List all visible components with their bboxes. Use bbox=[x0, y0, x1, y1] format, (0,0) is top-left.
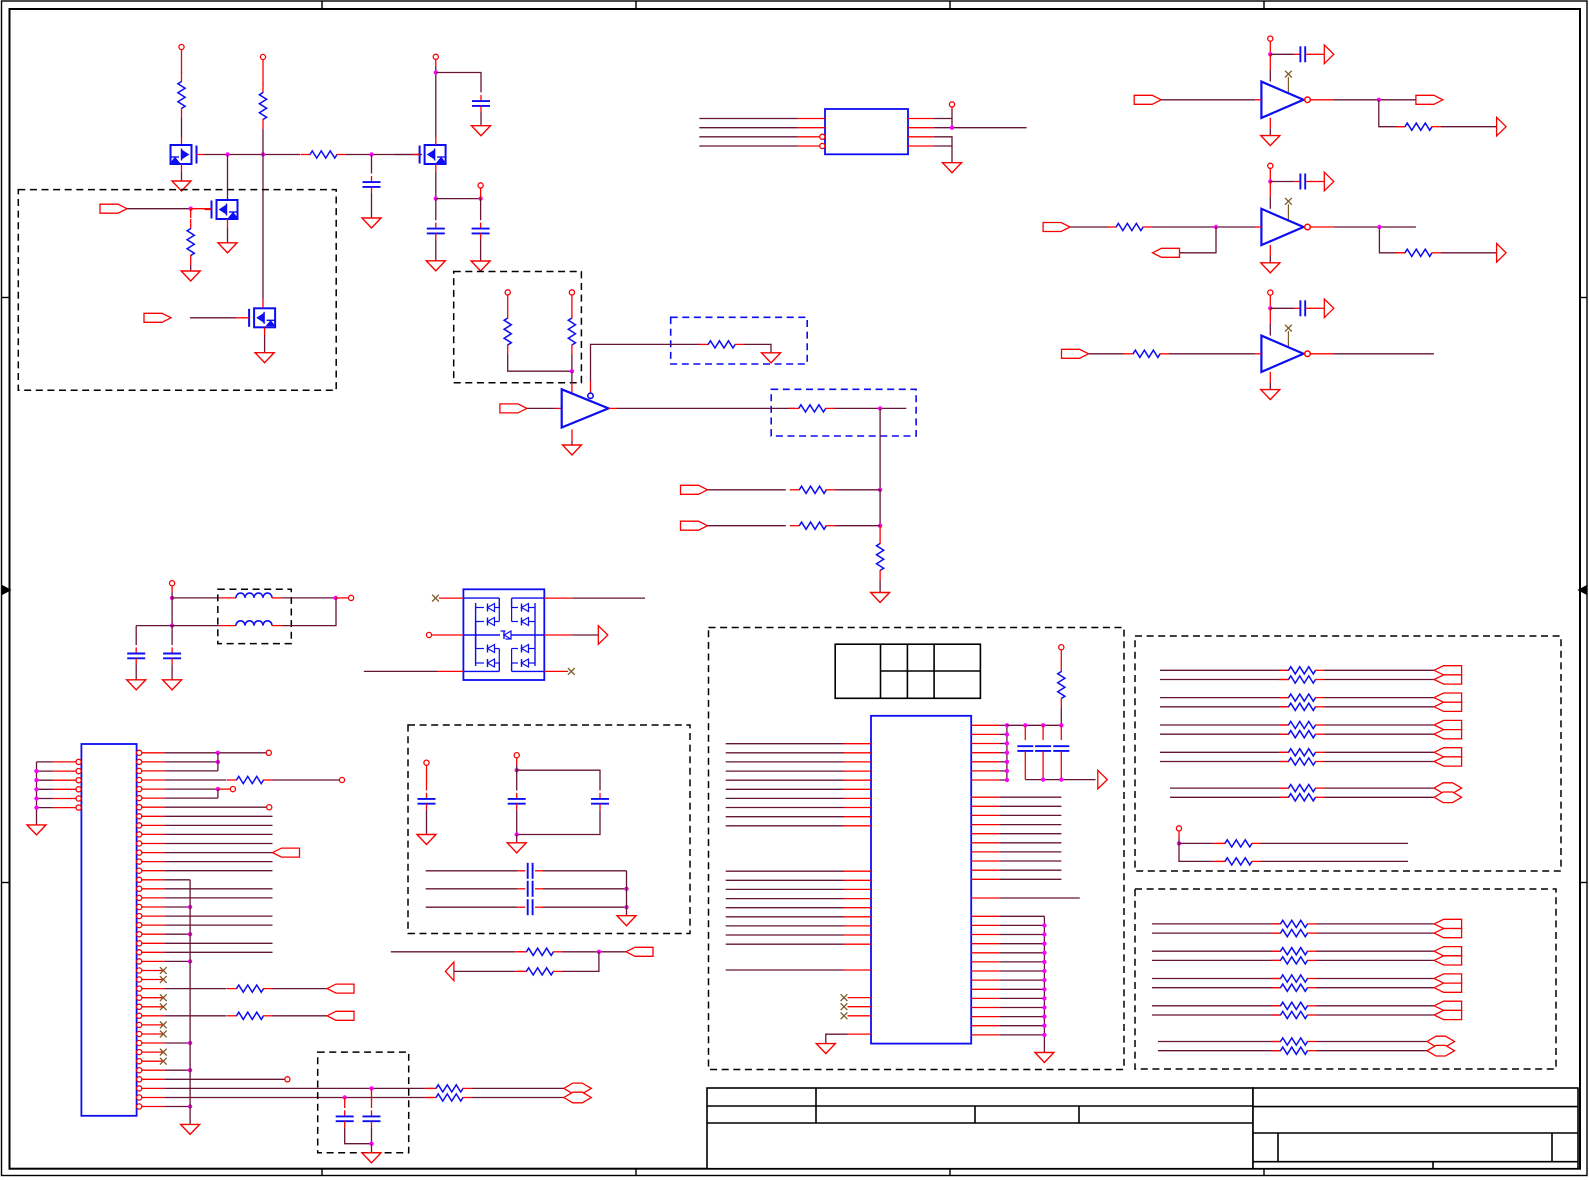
resistor R19 bbox=[1060, 662, 1062, 672]
wire pairA bbox=[391, 951, 516, 953]
wire series cap row1 right bbox=[543, 870, 627, 872]
wire D1 pin2 stub bbox=[432, 634, 464, 636]
wire J1 right 20 stub bbox=[142, 924, 165, 926]
wire U3 gnd pin bbox=[826, 1033, 848, 1035]
wire U3 tr pin1 bbox=[1000, 724, 1007, 726]
pin P14 bbox=[1176, 826, 1181, 831]
wire pairB stub bbox=[515, 970, 525, 972]
wire J1 right net 6 bbox=[164, 797, 218, 799]
wire J1 right net 1 bbox=[164, 752, 266, 754]
node J1 left bus junction y780 bbox=[34, 778, 38, 782]
wire U3 tr pin1 stub bbox=[971, 724, 999, 726]
wire arrA p4b bbox=[1160, 761, 1289, 763]
wire J1 left 6 bbox=[37, 807, 54, 809]
node Q4 drain junction bbox=[434, 70, 438, 74]
wire U3 tr pin3 bbox=[1000, 743, 1007, 745]
wire J1 right 40 stub bbox=[142, 1106, 165, 1108]
node rail junction 2 bbox=[1041, 723, 1045, 727]
ground below C3 bbox=[472, 126, 491, 136]
wire U3 mr pin4 bbox=[1000, 824, 1062, 826]
wire Q2 source to gnd bbox=[227, 228, 229, 243]
pin net r1 end bbox=[266, 750, 271, 755]
wire U3 br pin4 bbox=[1000, 943, 1045, 945]
wire U3 lg1 pin1 stub bbox=[844, 743, 871, 745]
wire J1 r38 long net bbox=[164, 1087, 426, 1089]
wire J1 left 6 stub bbox=[53, 807, 76, 809]
border zone ticks bbox=[321, 1, 323, 9]
node U3 tr bus junction y780 bbox=[1005, 778, 1009, 782]
tag J1 r12 bbox=[273, 848, 300, 857]
node U3 br bus junction y934 bbox=[1042, 932, 1046, 936]
capacitor C8 bbox=[426, 793, 428, 799]
wire R4 to gnd bbox=[190, 265, 192, 271]
wire U3 lg2 pin3 bbox=[726, 888, 844, 890]
wire J1 right 3 stub bbox=[142, 770, 165, 772]
wire P2 to R2 bbox=[262, 60, 264, 84]
wire R8 to junction bbox=[835, 407, 907, 409]
wire C6 drop bbox=[135, 626, 137, 646]
input tag op1 bbox=[1134, 95, 1161, 104]
ground U1 bbox=[943, 163, 962, 173]
wire arrB p4a out bbox=[1317, 1005, 1435, 1007]
wire series cap row3 right bbox=[543, 906, 627, 908]
wire J1 right net 33 bbox=[164, 1042, 190, 1044]
wire J1 right 35 stub bbox=[142, 1060, 165, 1062]
pin J1 right 14 bbox=[137, 868, 142, 873]
pin op2 VCC bbox=[1268, 163, 1273, 168]
wire U3 lg2 pin5 stub bbox=[844, 907, 871, 909]
wire L out stub bbox=[336, 597, 349, 599]
no-connect X J1 r29 bbox=[160, 1003, 167, 1010]
node J1 left bus junction y771 bbox=[34, 769, 38, 773]
capacitor C15 bbox=[371, 1110, 373, 1116]
node U3 br bus junction y998 bbox=[1042, 996, 1046, 1000]
wire U3 br pin10 bbox=[1000, 997, 1045, 999]
wire U3 mr pin7 stub bbox=[971, 851, 999, 853]
node U3 br bus junction y961 bbox=[1042, 960, 1046, 964]
capacitor C4 bbox=[435, 223, 437, 229]
resistor R3 bbox=[301, 154, 311, 156]
transistor Q1 bbox=[171, 145, 192, 164]
resistor op3 in bbox=[1124, 353, 1134, 355]
node U3 br bus junction y989 bbox=[1042, 987, 1046, 991]
wire op2 cap to arrow bbox=[1310, 181, 1325, 183]
wire U1 left pin 1 stub bbox=[798, 118, 825, 120]
wire R18 out bbox=[472, 1097, 564, 1099]
wire D1 pin6 net bbox=[572, 597, 645, 599]
pin J1 right 40 bbox=[137, 1104, 142, 1109]
wire P11 down bbox=[426, 765, 428, 790]
wire arrA p5a out bbox=[1325, 787, 1435, 789]
wire U2 in bbox=[527, 407, 555, 409]
resistor R26 bbox=[1279, 751, 1289, 753]
wire op3 cap to arrow bbox=[1310, 307, 1325, 309]
wire P13 down bbox=[1060, 650, 1062, 663]
node bus junction r24 bbox=[188, 959, 192, 963]
no-connect X J1 r35 bbox=[160, 1058, 167, 1065]
wire junction E to C5 bbox=[480, 199, 482, 221]
node U3 br bus junction y1016 bbox=[1042, 1014, 1046, 1018]
output tag op1 bbox=[1416, 95, 1443, 104]
wire Q3 gate stub bbox=[236, 317, 244, 319]
wire EN2 to Q3 gate bbox=[190, 317, 236, 319]
wire cap2 drop bbox=[1060, 725, 1062, 740]
wire pairA stub bbox=[515, 951, 525, 953]
wire U3 br pin1 stub bbox=[971, 915, 999, 917]
pin J1 left 5 bbox=[76, 796, 81, 801]
wire R1 to Q1 drain bbox=[181, 118, 183, 137]
wire U3 tr pin6 bbox=[1000, 770, 1007, 772]
node op2 in junction bbox=[1214, 225, 1218, 229]
wire J1 right 8 stub bbox=[142, 815, 165, 817]
resistor R11 bbox=[879, 534, 881, 544]
wire cap0 drop bbox=[1024, 725, 1026, 740]
wire L1 out bbox=[282, 597, 336, 599]
ground below C4 bbox=[426, 261, 445, 271]
wire U3 br pin4 stub bbox=[971, 943, 999, 945]
wire C14 gnd link bbox=[345, 1127, 372, 1143]
wire J1 right 25 stub bbox=[142, 970, 165, 972]
wire U3 br pin12 bbox=[1000, 1016, 1045, 1018]
net tags arrA pair4 bbox=[1434, 748, 1462, 757]
wire U3 lg1 pin9 stub bbox=[844, 816, 871, 818]
wire U3 mr pin3 stub bbox=[971, 814, 999, 816]
pin J1 left 4 bbox=[76, 787, 81, 792]
node pairA junction bbox=[597, 950, 601, 954]
resistor R25 bbox=[1279, 733, 1289, 735]
resistor R16 bbox=[517, 970, 527, 972]
resistor R8 bbox=[789, 407, 799, 409]
wire arrB p2a out bbox=[1317, 950, 1435, 952]
wire U3 br pin11 bbox=[1000, 1007, 1045, 1009]
wire C7 to gnd bbox=[171, 664, 173, 679]
wire pairA out bbox=[562, 951, 626, 953]
wire junction to C3 bbox=[436, 73, 481, 93]
transistor Q3 bbox=[254, 308, 275, 327]
resistor op1 fb bbox=[1396, 126, 1406, 128]
node gate junction B bbox=[261, 152, 265, 156]
ground R11 bbox=[871, 593, 890, 603]
wire arrA p2b bbox=[1160, 706, 1289, 708]
wire U3 tr pin7 stub bbox=[971, 779, 999, 781]
wire U3 lg2 pin8 stub bbox=[844, 934, 871, 936]
wire R11 to gnd bbox=[879, 580, 881, 593]
wire net down bbox=[879, 408, 881, 489]
wire U3 lg2 pin9 stub bbox=[844, 943, 871, 945]
capacitor C2 bbox=[371, 176, 373, 182]
no-connect X J1 r26 bbox=[160, 976, 167, 983]
pin J1 right 10 bbox=[137, 832, 142, 837]
wire arrB p3a bbox=[1152, 978, 1281, 980]
node L out junction bbox=[333, 596, 337, 600]
wire J1 right net 23 bbox=[164, 951, 272, 953]
wire cap2 down bbox=[1060, 751, 1062, 780]
wire J1 right bus bbox=[189, 880, 191, 1125]
wire Q2 gate stub bbox=[191, 208, 212, 210]
wire R6 down bbox=[571, 355, 573, 372]
wire J1 left 3 stub bbox=[53, 779, 76, 781]
wire pullup to U2 vcc stub bbox=[571, 383, 573, 394]
wire U3 lg2 pin5 bbox=[726, 907, 844, 909]
stub op3 nc bbox=[1287, 331, 1289, 347]
wire U3 lg1 pin6 bbox=[726, 788, 844, 790]
wire J1 right 30 stub bbox=[142, 1015, 165, 1017]
pin J1 right 12 bbox=[137, 850, 142, 855]
wire op1 out bbox=[1334, 99, 1416, 101]
wire C9 gnd stem bbox=[516, 835, 518, 843]
resistor R4 bbox=[190, 219, 192, 229]
wire J1 left 2 stub bbox=[53, 770, 76, 772]
wire cap0 down bbox=[1024, 751, 1026, 780]
pin J1 right 5 bbox=[137, 787, 142, 792]
capacitor C9 bbox=[516, 793, 518, 799]
wire J1 right net 2 bbox=[164, 761, 218, 763]
dashed box output filter bbox=[318, 1052, 409, 1153]
wire U1 right pin 2 stub bbox=[908, 127, 934, 129]
wire C13 drop bbox=[344, 1098, 346, 1109]
resistor R30 bbox=[1271, 923, 1281, 925]
pin P1 VCC bbox=[179, 44, 184, 49]
wire junction D to C4 bbox=[435, 199, 437, 221]
pin J1 right 19 bbox=[137, 914, 142, 919]
wire U3 mr pin2 stub bbox=[971, 805, 999, 807]
node bus junction r18 bbox=[188, 905, 192, 909]
node gate junction A bbox=[225, 152, 229, 156]
wire U3 lg1 pin6 stub bbox=[844, 788, 871, 790]
wire arrA p4a out bbox=[1325, 751, 1435, 753]
wire U3 lg1 pin2 stub bbox=[844, 752, 871, 754]
net tags arrB pair2 bbox=[1434, 947, 1462, 956]
pin J1 right 23 bbox=[137, 950, 142, 955]
op-amp U3 triangle bbox=[1261, 209, 1303, 245]
wire U1 pin7 link bbox=[934, 137, 952, 146]
wire U3 mr pin4 stub bbox=[971, 824, 999, 826]
wire U3 tr pin6 stub bbox=[971, 770, 999, 772]
node J1 left bus junction y807 bbox=[34, 805, 38, 809]
wire op2 fb stub bbox=[1396, 252, 1405, 254]
wire U3 mr pin9 stub bbox=[971, 869, 999, 871]
resistor R29 bbox=[1279, 796, 1289, 798]
wire P14 row1 bbox=[1179, 838, 1213, 843]
no-connect X D1 pin1 bbox=[432, 595, 439, 602]
wire U3 tr pin2 bbox=[1000, 733, 1007, 735]
input tag EN2 bbox=[144, 313, 171, 322]
arrow D1 out bbox=[598, 626, 608, 645]
wire series cap row1 left bbox=[426, 870, 518, 872]
ground below C2 bbox=[362, 218, 381, 228]
resistor R15 bbox=[517, 951, 527, 953]
resistor R5 bbox=[507, 309, 509, 319]
wire U3 tr pin7 bbox=[1000, 779, 1007, 781]
wire C2 to gnd bbox=[371, 193, 373, 218]
stub op1 nc bbox=[1287, 77, 1289, 93]
wire C9 loop top bbox=[517, 765, 600, 791]
power arrow op2 bbox=[1324, 172, 1334, 191]
wire arrB p2a bbox=[1152, 950, 1281, 952]
wire Q4 source to junction D bbox=[435, 172, 437, 199]
wire arrA p2a out bbox=[1325, 697, 1435, 699]
inductor L2 bbox=[219, 625, 236, 627]
wire U3 br pin8 bbox=[1000, 979, 1045, 981]
wire J1 r12 to tag bbox=[164, 852, 272, 854]
capacitor C14 bbox=[344, 1110, 346, 1116]
wire P1 to R1 bbox=[181, 50, 183, 73]
pin J1 right 29 bbox=[137, 1004, 142, 1009]
wire U3 br pin3 stub bbox=[971, 934, 999, 936]
wire arrB p3b bbox=[1152, 987, 1281, 989]
wire op1 vcc down bbox=[1269, 54, 1271, 69]
wire U3 lg1 pin10 bbox=[726, 825, 844, 827]
wire J1 right 28 stub bbox=[142, 997, 165, 999]
ground U3 left bbox=[816, 1044, 835, 1054]
node J1 r2 junction bbox=[216, 760, 220, 764]
dashed box pullups bbox=[454, 272, 582, 383]
pin J1 right 28 bbox=[137, 995, 142, 1000]
wire U3 br pin6 bbox=[1000, 961, 1045, 963]
resistor R14 bbox=[227, 1015, 237, 1017]
wire op2 in a bbox=[1070, 226, 1107, 228]
node U3 br bus junction y1025 bbox=[1042, 1023, 1046, 1027]
wire arrA p1b bbox=[1160, 679, 1289, 681]
wire Q1 drain stub bbox=[181, 137, 183, 145]
wire J1 right 6 stub bbox=[142, 797, 165, 799]
wire J1 right 23 stub bbox=[142, 951, 165, 953]
ground C9 bbox=[507, 843, 526, 853]
wire D1 pin1 stub bbox=[439, 597, 463, 599]
resistor R30 bbox=[1216, 842, 1226, 844]
wire J1 right 11 stub bbox=[142, 843, 165, 845]
wire U3 lg2 pin2 stub bbox=[844, 879, 871, 881]
pin J1 right 33 bbox=[137, 1040, 142, 1045]
wire J1 right 9 stub bbox=[142, 824, 165, 826]
wire P6 down bbox=[507, 295, 509, 310]
wire Q4 source stub bbox=[435, 164, 437, 172]
dashed box main IC bbox=[709, 628, 1125, 1070]
resistor R9 bbox=[790, 489, 800, 491]
wire U2 en up bbox=[591, 344, 701, 381]
node op2 out junction bbox=[1377, 225, 1381, 229]
wire J1 right 33 stub bbox=[142, 1042, 165, 1044]
wire U1 pin5 stub bbox=[951, 107, 953, 110]
dashed box option R8 blue bbox=[771, 389, 916, 436]
wire U3 tr bus bbox=[1006, 725, 1008, 780]
wire series cap row3 left bbox=[426, 906, 518, 908]
node filter gnd junction bbox=[369, 1142, 373, 1146]
pin J1 right 24 bbox=[137, 959, 142, 964]
wire arrB p1b bbox=[1152, 932, 1281, 934]
wire vert J1-J2 bbox=[171, 598, 173, 626]
resistor R31 bbox=[1271, 932, 1281, 934]
pin J1 right 13 bbox=[137, 859, 142, 864]
wire arrA p3a bbox=[1160, 724, 1289, 726]
pin U1 bubble pin4 bbox=[820, 143, 825, 148]
wire U3 mr pin2 bbox=[1000, 805, 1062, 807]
wire U3 lg2 pin4 bbox=[726, 898, 844, 900]
resistor R2 bbox=[262, 83, 264, 93]
wire U3 lg2 pin9 bbox=[726, 943, 844, 945]
wire U3 mr pin8 stub bbox=[971, 860, 999, 862]
input tag op3 bbox=[1062, 349, 1089, 358]
pin net r5 end bbox=[230, 787, 235, 792]
resistor R22 bbox=[1279, 697, 1289, 699]
wire op3 to cap bbox=[1270, 307, 1294, 309]
wire J1 left 4 stub bbox=[53, 788, 76, 790]
wire J1 right net 3 bbox=[164, 770, 218, 772]
capacitor C11 bbox=[517, 870, 525, 872]
wire U3 mr pin1 bbox=[1000, 796, 1062, 798]
wire U3 lg1 pin1 bbox=[726, 743, 844, 745]
wire J1 right net 9 bbox=[164, 824, 272, 826]
wire U3 mr pin7 bbox=[1000, 851, 1062, 853]
wire to L1 bbox=[172, 592, 219, 598]
wire U3 nc pin3 stub bbox=[848, 1015, 872, 1017]
wire Q1 source to gnd bbox=[181, 172, 183, 181]
wire U3 lg2 pin7 stub bbox=[844, 925, 871, 927]
resistor R21 bbox=[1279, 679, 1289, 681]
capacitor C18 bbox=[1053, 745, 1069, 747]
wire U3 lg2 pin7 bbox=[726, 925, 844, 927]
node U3 br bus junction y943 bbox=[1042, 942, 1046, 946]
capacitor C10 bbox=[599, 793, 601, 799]
wire U3 lg1 pin3 bbox=[726, 761, 844, 763]
wire P3 to Q4 drain bbox=[435, 66, 437, 137]
power arrow op1 bbox=[1324, 45, 1334, 64]
wire J1 right 24 stub bbox=[142, 960, 165, 962]
wire op3 vcc down2 bbox=[1269, 324, 1271, 336]
wire J1 right 14 stub bbox=[142, 870, 165, 872]
node filter junction A bbox=[369, 1086, 373, 1090]
wire U3 br pin9 bbox=[1000, 988, 1045, 990]
wire U3 mr pin10 bbox=[1000, 878, 1062, 880]
wire U3 lg1 pin8 stub bbox=[844, 807, 871, 809]
capacitor C7 bbox=[171, 647, 173, 653]
wire op3 in a bbox=[1089, 353, 1125, 355]
pin J1 left 2 bbox=[76, 769, 81, 774]
pin J1 right 39 bbox=[137, 1095, 142, 1100]
node U1 out junction bbox=[950, 126, 954, 130]
wire op2 vcc down bbox=[1269, 182, 1271, 197]
no-connect X D1 pin4 bbox=[568, 668, 575, 675]
node op1 out junction bbox=[1377, 98, 1381, 102]
wire J1 right 17 stub bbox=[142, 897, 165, 899]
wire U2 out stub bbox=[609, 407, 618, 409]
wire U3 br pin5 bbox=[1000, 952, 1045, 954]
wire J1 right net 37 bbox=[164, 1078, 284, 1080]
wire J1 r4 b bbox=[273, 779, 340, 781]
resistor R23 bbox=[1279, 706, 1289, 708]
wire J1 right net 7 bbox=[164, 806, 266, 808]
pin net r37 end bbox=[285, 1077, 290, 1082]
buffer U2 triangle bbox=[562, 389, 609, 427]
wire op1 out stub bbox=[1310, 99, 1334, 101]
wire cap rows bus bbox=[626, 871, 628, 916]
wire J1 right net 16 bbox=[164, 888, 272, 890]
pin net r4 end bbox=[339, 777, 344, 782]
diode array D1 box bbox=[463, 589, 544, 680]
wire R2 down to rail bbox=[262, 129, 264, 155]
wire U3 lg1 pin8 bbox=[726, 807, 844, 809]
net tags arrA pair2 bbox=[1434, 693, 1462, 702]
wire U3 br pin1 bbox=[1000, 915, 1045, 917]
wire arrA p5a bbox=[1170, 787, 1289, 789]
wire U3 lg2 pin6 stub bbox=[844, 916, 871, 918]
resistor R31 bbox=[1216, 860, 1226, 862]
ground op2 bbox=[1261, 263, 1280, 273]
wire U3 tr pin2 stub bbox=[971, 733, 999, 735]
wire arrA p4a bbox=[1160, 751, 1289, 753]
wire U3 br pin7 bbox=[1000, 970, 1045, 972]
arrow op2 fb bbox=[1497, 244, 1507, 263]
